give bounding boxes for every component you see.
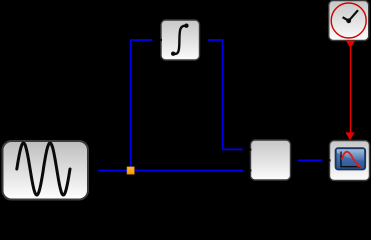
integral symbol xyxy=(173,26,186,54)
red clock signal line xyxy=(350,47,352,133)
integrator input port mark xyxy=(160,39,162,41)
wire from sine output to add block lower input (through junction) xyxy=(98,170,243,172)
junction (orange node) xyxy=(127,167,134,174)
scope input port mark xyxy=(329,159,331,161)
scope block xyxy=(329,141,370,181)
clock block xyxy=(329,1,369,41)
scope axes xyxy=(340,152,360,167)
clock circle xyxy=(331,3,366,38)
red arrowhead into scope xyxy=(345,132,354,140)
wire from integrator output down to add block upper input xyxy=(208,40,243,149)
sine curve xyxy=(17,143,70,195)
integrator block xyxy=(160,20,200,60)
adder input port marks xyxy=(249,148,251,150)
sine source block xyxy=(3,141,89,200)
clock hands xyxy=(343,10,358,21)
wire from junction up to integrator input xyxy=(131,40,153,171)
adder block (empty) xyxy=(249,140,290,180)
scope red curve xyxy=(342,152,360,166)
clock output triangle port xyxy=(346,41,355,48)
wire from add block output to scope input xyxy=(298,159,322,161)
scope screen xyxy=(336,148,366,169)
